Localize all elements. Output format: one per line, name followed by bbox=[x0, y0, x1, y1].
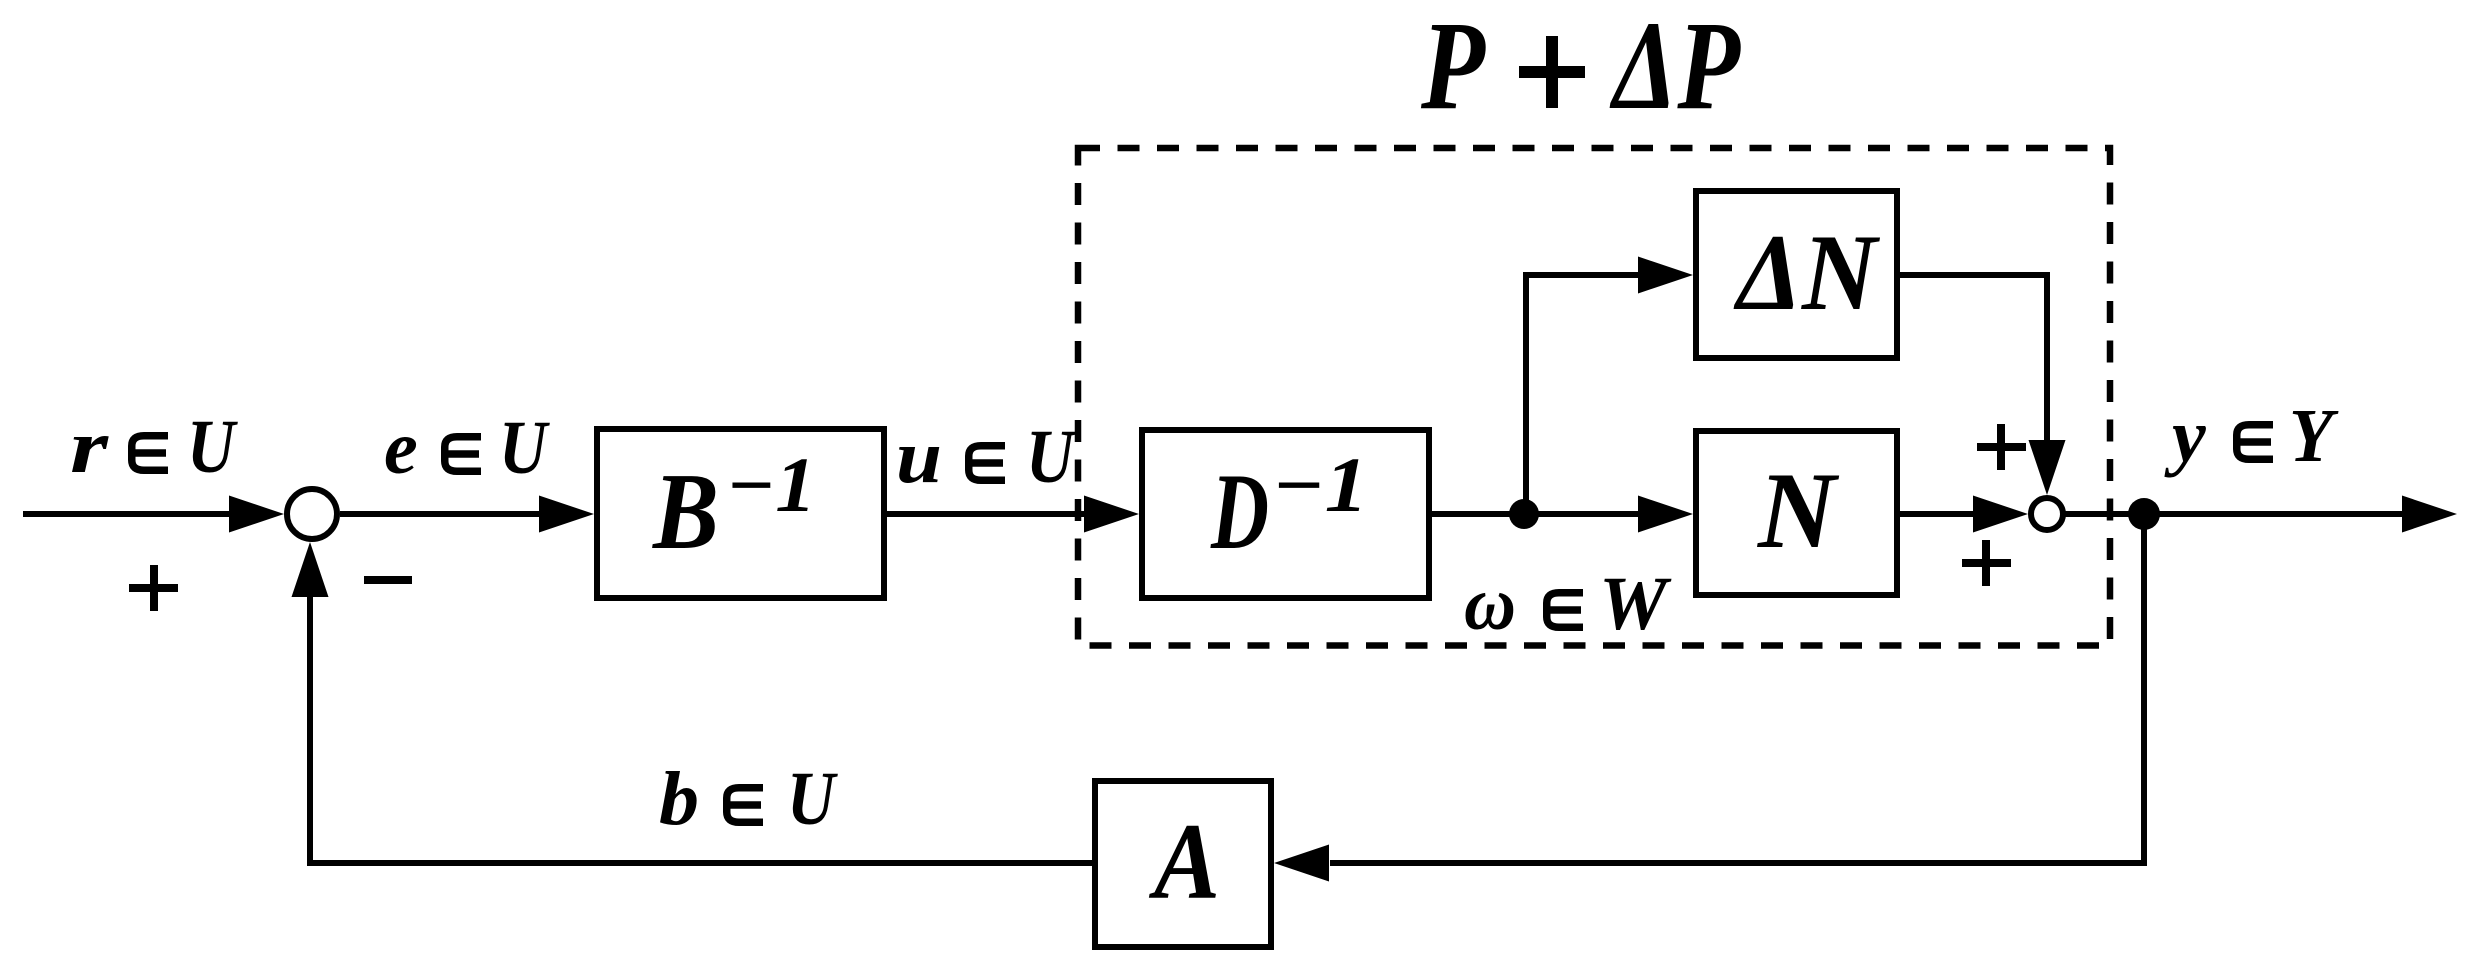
dashed uncertainty box P+DP bbox=[1078, 148, 2110, 646]
arrowhead up into S1 bottom bbox=[292, 542, 329, 597]
label e in U bbox=[384, 406, 551, 490]
svg-text:ω: ω bbox=[1464, 562, 1516, 646]
wire A to left bbox=[307, 860, 1092, 866]
svg-text:u: u bbox=[896, 415, 942, 499]
svg-text:W: W bbox=[1599, 562, 1672, 646]
summing junction S1 bbox=[287, 489, 337, 539]
feedback wire left to A bbox=[1330, 860, 2147, 866]
wire D to N bbox=[1432, 511, 1640, 517]
wire N to S2 bbox=[1900, 511, 1974, 517]
svg-text:U: U bbox=[499, 406, 551, 490]
arrowhead into A bbox=[1274, 845, 1329, 882]
label u in U bbox=[896, 415, 1078, 499]
arrowhead into B bbox=[539, 496, 594, 533]
plus sign upper at S2 bbox=[1977, 424, 2026, 470]
wire e bbox=[340, 511, 540, 517]
arrowhead into summing junction S1 bbox=[229, 496, 284, 533]
minus sign at S1 bbox=[364, 576, 412, 584]
block B^-1 bbox=[597, 429, 884, 598]
svg-text:r: r bbox=[70, 405, 110, 489]
wire u bbox=[887, 511, 1086, 517]
arrowhead into N bbox=[1638, 496, 1693, 533]
feedback wire down bbox=[2141, 514, 2147, 860]
block N bbox=[1696, 431, 1897, 595]
node y junction dot bbox=[2128, 498, 2160, 530]
wire DeltaN to summing junction S2 bbox=[1900, 272, 2047, 278]
label omega in W bbox=[1464, 562, 1672, 646]
block A bbox=[1095, 781, 1271, 947]
wire branch up to DeltaN bbox=[1523, 272, 1529, 514]
plus sign at input bbox=[129, 565, 178, 611]
label y in Y bbox=[2164, 394, 2339, 478]
svg-text:ΔN: ΔN bbox=[1733, 212, 1880, 333]
label r in U bbox=[70, 405, 239, 489]
arrowhead into D bbox=[1084, 496, 1139, 533]
summing junction S2 bbox=[2031, 498, 2063, 530]
block DeltaN bbox=[1696, 191, 1897, 358]
arrowhead into S2 left bbox=[1973, 496, 2028, 533]
svg-text:A: A bbox=[1149, 801, 1220, 922]
output arrowhead bbox=[2402, 496, 2457, 533]
svg-text:U: U bbox=[187, 405, 239, 489]
svg-text:P: P bbox=[1420, 0, 1486, 136]
arrowhead down into S2 bbox=[2029, 440, 2066, 495]
node omega junction dot bbox=[1509, 499, 1539, 529]
label b in U bbox=[659, 757, 839, 841]
svg-text:B: B bbox=[651, 451, 719, 572]
svg-text:U: U bbox=[787, 757, 839, 841]
svg-text:Y: Y bbox=[2289, 394, 2339, 478]
svg-text:N: N bbox=[1756, 450, 1839, 571]
title P + DeltaP bbox=[1420, 0, 1741, 136]
svg-text:D: D bbox=[1210, 451, 1269, 572]
svg-text:U: U bbox=[1026, 415, 1078, 499]
svg-text:−1: −1 bbox=[1272, 441, 1368, 528]
svg-text:ΔP: ΔP bbox=[1609, 0, 1741, 136]
wire S2 to output bbox=[2063, 511, 2402, 517]
arrowhead into DeltaN bbox=[1638, 257, 1693, 294]
plus sign lower at S2 bbox=[1962, 540, 2011, 586]
wire input r bbox=[23, 511, 235, 517]
svg-text:b: b bbox=[659, 757, 699, 841]
block D^-1 bbox=[1142, 430, 1429, 598]
svg-text:−1: −1 bbox=[726, 441, 816, 528]
wire up to S1 bbox=[307, 595, 313, 866]
svg-text:e: e bbox=[384, 406, 418, 490]
